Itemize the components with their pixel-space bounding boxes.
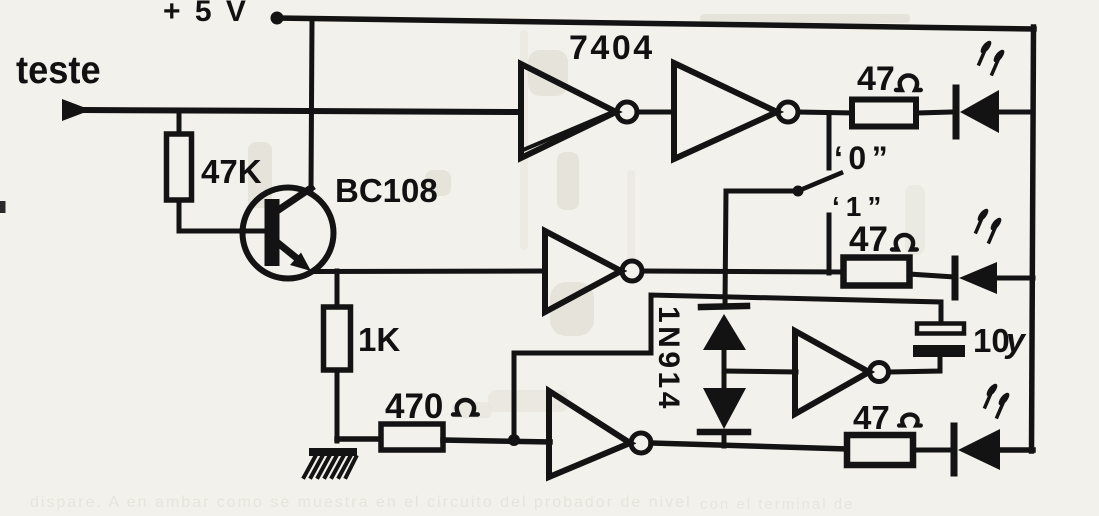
- wire LED2 to rail: [997, 276, 1033, 281]
- wire switch contact 1 stub: [827, 215, 832, 273]
- svg-text:47: 47: [853, 399, 890, 436]
- node junction dot: [508, 434, 520, 446]
- LED3 light arrows: [985, 382, 1012, 417]
- resistor 47 ohm row1: [852, 100, 916, 127]
- LED D1: [956, 88, 999, 136]
- svg-text:47: 47: [849, 220, 888, 259]
- inverter U1C: [545, 231, 642, 312]
- inverter U1D pulse: [795, 331, 889, 414]
- wire resistor2 to LED2: [909, 274, 954, 277]
- LED2 light arrows: [976, 207, 1004, 242]
- svg-text:7404: 7404: [569, 29, 655, 67]
- wire switch contact 0 stub: [827, 113, 832, 168]
- transistor Q1 BC108: [243, 188, 334, 279]
- LED D3: [954, 426, 1000, 473]
- resistor 1K: [324, 307, 351, 370]
- svg-text:BC108: BC108: [335, 172, 438, 209]
- svg-text:+ 5 V: + 5 V: [163, 0, 249, 28]
- wire switch common down to diodes: [725, 191, 726, 305]
- LED1 light arrows: [979, 39, 1007, 74]
- svg-text:1N914: 1N914: [652, 306, 685, 412]
- wire U1B output row: [798, 112, 853, 113]
- svg-text:47: 47: [857, 60, 895, 98]
- svg-text:47K: 47K: [201, 153, 262, 190]
- wire 1K to ground row: [335, 370, 340, 441]
- wire 1K top stub: [335, 271, 340, 309]
- wire 470 to inverter input: [443, 440, 550, 442]
- wire U1E output row: [651, 443, 849, 449]
- resistor 47 ohm row3: [847, 435, 913, 465]
- wire feedback up-over to capacitor: [514, 295, 941, 438]
- wire U1D output to capacitor: [889, 357, 940, 372]
- wire +5V rail right vertical: [1032, 27, 1034, 451]
- ground: [304, 448, 357, 477]
- ghost showthrough marks: [30, 14, 925, 513]
- resistor 470: [381, 424, 443, 450]
- wire 47K top stub: [177, 112, 182, 136]
- wire U1C output row: [642, 271, 844, 272]
- resistor 47 ohm row2: [844, 258, 910, 286]
- wire 47K to base: [179, 200, 264, 231]
- diode 1N914 bottom: [700, 388, 748, 432]
- wire collector stub: [311, 21, 312, 189]
- resistor 47K: [167, 134, 192, 200]
- wire resistor3 to LED3: [913, 448, 954, 453]
- svg-text:y: y: [1004, 322, 1027, 360]
- node +5V dot: [271, 12, 284, 25]
- inverter U1A: [521, 64, 637, 158]
- stray mark left edge: [0, 201, 6, 213]
- wire diode mid link: [722, 350, 727, 389]
- svg-text:‘1”: ‘1”: [832, 191, 887, 222]
- svg-text:1K: 1K: [358, 321, 400, 358]
- svg-text:dispare. A en ambar como: dispare. A en ambar como se muestra en e…: [30, 494, 692, 511]
- wire emitter row: [316, 269, 545, 275]
- input arrow probe: [62, 99, 91, 121]
- inverter U1E: [549, 391, 651, 477]
- inverter U1B: [674, 63, 798, 159]
- switch lever: [726, 173, 841, 197]
- wire diode bottom stub: [722, 432, 727, 446]
- wire ground row to 470: [337, 436, 383, 442]
- wire +5V rail top: [277, 18, 1034, 29]
- wire teste input: [84, 110, 521, 112]
- capacitor 10u: [913, 324, 965, 358]
- LED D2: [955, 259, 997, 297]
- wire LED1 to rail: [999, 110, 1033, 115]
- wire between gates: [637, 110, 674, 115]
- svg-text:‘0”: ‘0”: [834, 140, 893, 176]
- svg-text:10: 10: [973, 322, 1010, 359]
- svg-text:teste: teste: [16, 48, 101, 91]
- svg-text:470: 470: [385, 387, 443, 426]
- wire LED3 to rail: [1000, 447, 1033, 453]
- diode 1N914 top: [701, 306, 747, 350]
- svg-text:con el terminal de: con el terminal de: [700, 496, 854, 513]
- wire diode mid to inverter: [724, 371, 796, 372]
- wire resistor1 to LED1: [916, 112, 953, 113]
